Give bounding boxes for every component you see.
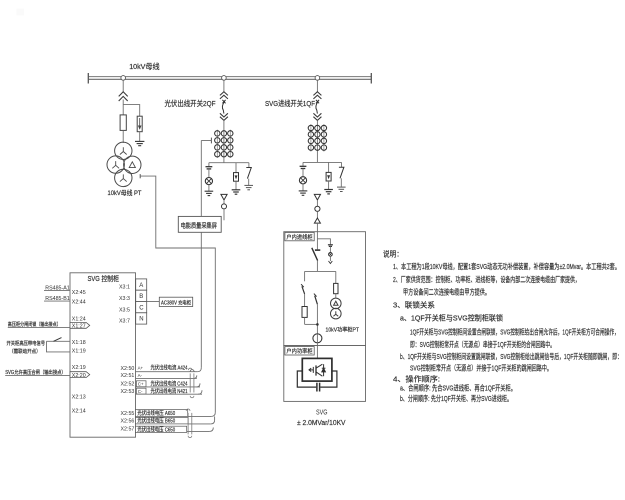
wire: dc-link loop xyxy=(297,371,337,387)
node: 2QF cable tee bar xyxy=(209,162,249,164)
wire xyxy=(223,200,225,204)
svg-text:甲方设备间二次连接电缆由甲方提供。: 甲方设备间二次连接电缆由甲方提供。 xyxy=(403,288,490,297)
svg-text:X1:27: X1:27 xyxy=(72,324,86,330)
wire: PT branch drop from bus xyxy=(122,80,124,92)
indoor incoming cabinet 户内进线柜 (outline) xyxy=(284,232,366,346)
cable connector: female contact (1QF feeder) xyxy=(314,194,320,200)
wire: 2QF outgoing cable end xyxy=(223,209,225,220)
terminal X1:27 banner xyxy=(70,323,90,329)
label box AC380V 充电柜 xyxy=(159,297,192,306)
svg-text:a、合闸顺序: 先合SVG进线柜、再合1QF开关柜。: a、合闸顺序: 先合SVG进线柜、再合1QF开关柜。 xyxy=(400,384,516,393)
svg-text:10kV功率柜PT: 10kV功率柜PT xyxy=(326,325,360,333)
node bus tap for 1QF xyxy=(315,76,320,81)
wire row X2:51 xyxy=(136,373,197,378)
wire: voltage riser continuation xyxy=(214,416,216,420)
phase cells A B C N xyxy=(136,279,147,324)
svg-text:SVG控制柜常开点（无源点）并接于1QF开关柜的跳闸回路中。: SVG控制柜常开点（无源点）并接于1QF开关柜的跳闸回路中。 xyxy=(410,364,552,373)
wire: 2QF through CT group xyxy=(223,120,225,162)
svg-text:X2:13: X2:13 xyxy=(72,394,86,400)
svg-text:X2:52: X2:52 xyxy=(121,382,135,388)
svg-text:即：SVG控制柜常开点（无源点）串接于1QF开关柜的合闸回路: 即：SVG控制柜常开点（无源点）串接于1QF开关柜的合闸回路中。 xyxy=(410,340,555,349)
drawout contact upper chevrons (1QF) xyxy=(313,92,321,99)
wire: metering panel down to control cabinet current terminals xyxy=(197,232,201,371)
wire to AC380V supply label xyxy=(147,301,160,303)
IGBT Q1 with anti-parallel diode xyxy=(309,364,325,376)
capacitor C1 (dc-link) xyxy=(316,383,318,392)
cable connector: male contact into incoming cabinet xyxy=(314,218,320,223)
ground (2QF lamp) xyxy=(205,191,214,195)
svg-text:X3:3: X3:3 xyxy=(119,296,130,302)
SVG control cabinet 控制柜 (outline) xyxy=(70,273,136,437)
node bus tap for PT xyxy=(121,76,126,81)
svg-text:X2:19: X2:19 xyxy=(72,365,86,371)
svg-text:X3:1: X3:1 xyxy=(119,285,130,291)
breaker (incoming cabinet main) xyxy=(312,248,321,272)
svg-text:X2:56: X2:56 xyxy=(121,419,135,425)
main switch branch (incoming cabinet) xyxy=(314,294,318,334)
notes block 说明 xyxy=(383,250,622,404)
ground (1QF earthing switch) xyxy=(337,187,346,191)
svg-text:X2:45: X2:45 xyxy=(72,290,86,296)
wire: PT branch to fuse, with tee to arrester xyxy=(122,100,124,115)
svg-text:X2:20: X2:20 xyxy=(72,373,86,379)
svg-text:A-: A- xyxy=(138,373,143,378)
wire: PT secondary tap to control cabinet (L-path) xyxy=(140,174,215,416)
svg-text:X2:57: X2:57 xyxy=(121,426,135,432)
fuse FU (bus PT) xyxy=(120,115,126,130)
svg-text:高压柜分闸闭锁（输出接点）: 高压柜分闸闭锁（输出接点） xyxy=(8,320,61,328)
node: 1QF cable tee bar xyxy=(303,161,342,163)
svg-text:X1:19: X1:19 xyxy=(72,349,86,355)
ground (1QF lamp) xyxy=(299,191,308,195)
svg-text:A+: A+ xyxy=(138,366,144,371)
svg-text:10kV母线 PT: 10kV母线 PT xyxy=(108,188,142,197)
svg-text:开关柜高压带电信号: 开关柜高压带电信号 xyxy=(7,339,46,347)
circuit breaker 2QF xyxy=(222,100,225,114)
svg-text:3、联锁关系: 3、联锁关系 xyxy=(393,301,435,310)
svg-text:X2:53: X2:53 xyxy=(121,389,135,395)
svg-text:a、1QF开关柜与SVG控制柜联锁: a、1QF开关柜与SVG控制柜联锁 xyxy=(400,314,504,323)
surge arrester F1 (bus PT branch) xyxy=(137,116,142,141)
svg-text:光伏出线电压 C650: 光伏出线电压 C650 xyxy=(137,425,175,433)
svg-text:1QF开关柜与SVG控制柜间设置合闸联锁，SVG控制柜给出合: 1QF开关柜与SVG控制柜间设置合闸联锁，SVG控制柜给出合闸允许后，1QF开关… xyxy=(410,328,619,337)
svg-text:光伏出线电流 A424: 光伏出线电流 A424 xyxy=(151,364,188,372)
current transformer (incoming cabinet outlet) xyxy=(313,334,322,343)
svg-text:AC380V 充电柜: AC380V 充电柜 xyxy=(161,298,192,306)
winding symbols: wye marks in three circles, open delta in right circle xyxy=(112,147,135,181)
cable plug node (2QF feeder) xyxy=(222,204,227,209)
svg-text:2、厂家供货范围：控制柜、功率柜、进线柜等，设备内部二次连接: 2、厂家供货范围：控制柜、功率柜、进线柜等，设备内部二次连接电缆由厂家提供， xyxy=(393,275,580,284)
svg-text:户内进线柜: 户内进线柜 xyxy=(286,233,313,241)
svg-text:光伏出线开关2QF: 光伏出线开关2QF xyxy=(165,99,217,108)
svg-text:b、分闸顺序: 先分1QF开关柜、再分SVG进线柜。: b、分闸顺序: 先分1QF开关柜、再分SVG进线柜。 xyxy=(400,394,512,403)
live-line display: coupling capacitor + indicator lamp (2QF) xyxy=(205,163,212,191)
wire: 1QF drop from bus xyxy=(316,80,318,92)
svg-text:A: A xyxy=(139,283,143,289)
wire row X2:50 光伏出线电流 A424 xyxy=(136,364,198,372)
svg-text:光伏出线电流 C424: 光伏出线电流 C424 xyxy=(151,380,188,388)
svg-text:SVG 控制柜: SVG 控制柜 xyxy=(88,274,120,283)
svg-text:1、本工程为1段10KV母线，配置1套SVG动态无功补偿装置: 1、本工程为1段10KV母线，配置1套SVG动态无功补偿装置，补偿容量为±2.0… xyxy=(393,262,620,271)
current transformers 1QF (3x4 group) xyxy=(308,125,326,150)
svg-text:X3:5: X3:5 xyxy=(119,307,130,313)
wire row X2:53 光伏出线电流 N421 xyxy=(136,387,203,395)
label box 户内功率柜 xyxy=(285,347,314,355)
ground (1QF arrester) xyxy=(324,190,333,194)
wire: 2QF drop from bus xyxy=(223,80,225,92)
svg-text:SVG允许高压合闸（输出接点）: SVG允许高压合闸（输出接点） xyxy=(5,368,65,376)
wire: 1QF through CT group xyxy=(316,120,318,162)
svg-text:户内功率柜: 户内功率柜 xyxy=(286,347,313,355)
contact: HV live signal (dry contact) xyxy=(47,338,71,352)
circuit breaker 1QF xyxy=(316,100,319,114)
fuse (power cabinet PT) xyxy=(334,271,338,298)
surge arrester F3 (1QF) xyxy=(326,162,331,189)
surge arrester F2 (2QF) xyxy=(234,163,239,190)
cable bundle crossing marks (voltage rows) xyxy=(186,409,192,438)
svg-text:X1:24: X1:24 xyxy=(72,316,86,322)
wire: CT secondary tap to metering panel xyxy=(201,138,211,217)
svg-text:C+: C+ xyxy=(138,382,144,387)
svg-text:C: C xyxy=(139,305,144,311)
faint corner mark xyxy=(16,9,24,16)
cable plug node (1QF feeder) xyxy=(315,206,320,211)
ground (bus PT arrester) xyxy=(135,141,144,145)
cable connector: female contact (2QF feeder) xyxy=(221,194,227,200)
live-line display: coupling capacitor + indicator lamp (1QF) xyxy=(299,162,306,190)
svg-text:X2:50: X2:50 xyxy=(121,366,135,372)
svg-text:N: N xyxy=(139,317,143,323)
label box 户内进线柜 xyxy=(285,232,314,240)
svg-text:SVG进线开关1QF: SVG进线开关1QF xyxy=(265,99,316,108)
drawout contact chevrons (PT branch) xyxy=(119,92,128,101)
soft-start branch: switch + resistor xyxy=(301,271,317,324)
converter module U1 (chain-link enclosure) xyxy=(302,358,332,381)
ground (2QF earthing switch) xyxy=(244,185,253,189)
svg-text:b、1QF开关柜与SVG控制柜间设置跳闸联锁，SVG控制柜给: b、1QF开关柜与SVG控制柜间设置跳闸联锁，SVG控制柜给出跳闸信号后，1QF… xyxy=(400,352,622,361)
earthing switch (2QF) xyxy=(246,163,251,186)
svg-text:X1:18: X1:18 xyxy=(72,340,86,346)
terminal X2:20 banner xyxy=(70,372,90,378)
drawout contact lower chevrons (1QF) xyxy=(313,113,321,120)
current transformers 2QF (3x4 group) xyxy=(215,131,233,157)
svg-text:X3:7: X3:7 xyxy=(119,319,130,325)
power quality metering panel 电能质量采集屏 xyxy=(178,216,221,232)
drawout contact lower chevrons (2QF) xyxy=(220,113,228,120)
svg-text:说明：: 说明： xyxy=(383,250,403,259)
node junction dot xyxy=(316,323,319,326)
node bus tap for 2QF xyxy=(222,76,227,81)
live-line display branch inside incoming cabinet xyxy=(317,239,333,264)
svg-text:± 2.0MVar/10KV: ± 2.0MVar/10KV xyxy=(297,418,346,427)
node: soft-start tee bar xyxy=(305,270,336,272)
svg-text:X2:51: X2:51 xyxy=(121,373,135,379)
ground (2QF arrester) xyxy=(232,190,241,194)
voltage transformer PT (10kV busbar PT, 4 windings) xyxy=(107,142,141,186)
wire row X2:52 光伏出线电流 C424 xyxy=(136,380,201,388)
svg-text:10kV母线: 10kV母线 xyxy=(129,62,160,71)
svg-text:X2:14: X2:14 xyxy=(72,408,86,414)
wire row X2:56 光伏出线电压 B650 xyxy=(136,417,215,425)
svg-text:B: B xyxy=(139,294,143,300)
wire row X2:57 光伏出线电压 C650 xyxy=(136,425,214,433)
svg-text:光伏出线电流 N421: 光伏出线电流 N421 xyxy=(151,387,188,395)
svg-text:SVG: SVG xyxy=(316,408,328,417)
10kV bus (double line) xyxy=(88,73,372,84)
cable bundle crossing marks (current rows) xyxy=(188,368,194,398)
svg-text:C-: C- xyxy=(138,389,143,394)
svg-text:（需联动开点）: （需联动开点） xyxy=(9,347,40,355)
voltage transformer PT2 (power cabinet PT, 2 windings) xyxy=(331,298,342,319)
svg-text:光伏出线电压 B650: 光伏出线电压 B650 xyxy=(137,417,175,425)
earthing switch (1QF) xyxy=(339,162,344,187)
indoor power cabinet 户内功率柜 (outline) xyxy=(284,346,366,402)
svg-text:电能质量采集屏: 电能质量采集屏 xyxy=(181,220,218,229)
svg-text:X2:55: X2:55 xyxy=(121,411,135,417)
svg-text:X2:44: X2:44 xyxy=(72,299,86,305)
svg-text:光伏出线电压 A650: 光伏出线电压 A650 xyxy=(137,409,175,417)
svg-text:4、操作顺序:: 4、操作顺序: xyxy=(393,375,440,384)
wire row X2:55 光伏出线电压 A650 xyxy=(136,409,212,417)
drawout contact upper chevrons (2QF) xyxy=(220,92,228,99)
